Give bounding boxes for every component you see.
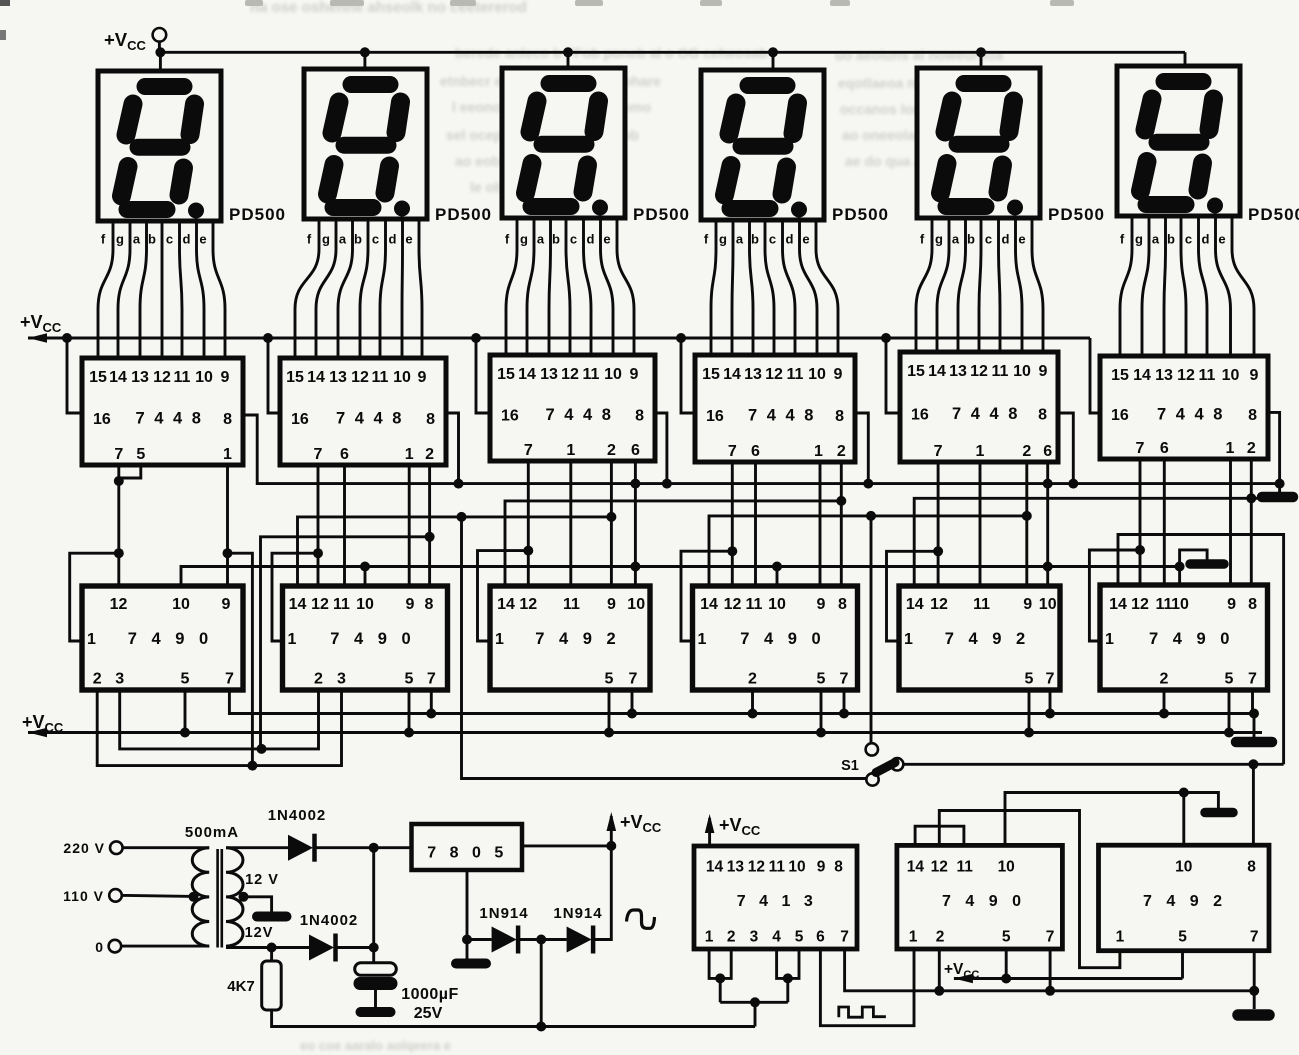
wire 7448 U2 pin8 to ground chain <box>446 413 459 484</box>
junction to U11 pin1 loop <box>933 546 943 556</box>
svg-text:14: 14 <box>497 596 515 613</box>
junction Vcc bus / U4 pin16 <box>676 333 686 343</box>
svg-text:14: 14 <box>906 596 924 613</box>
wire U11 pin7 to ground line <box>1049 690 1052 714</box>
7448 decoder U1 <box>82 358 243 465</box>
wire display DS6 segment f to 7448 U6 pin 15 <box>1120 216 1132 356</box>
junction E1 / U3 pin2 <box>606 512 616 522</box>
svg-text:1: 1 <box>288 631 297 648</box>
wire U10 pin5 to +Vcc line <box>820 690 823 733</box>
wire +Vcc to 7448 U3 pin16 <box>476 338 490 413</box>
svg-text:a: a <box>1152 232 1160 247</box>
svg-text:7 4 9 2: 7 4 9 2 <box>535 630 620 648</box>
wire U8 pin10 to chain <box>364 567 367 587</box>
junction U5 pin8 / ground chain <box>1068 479 1078 489</box>
wire to U9 pin1 (left loop) <box>478 551 529 641</box>
junction display DS3 Vcc <box>563 47 573 57</box>
wire U14 pin7 to ground line <box>1049 949 1052 991</box>
wire U2 pin7 to 7490 U8 pin12 <box>317 465 320 586</box>
counter 7492 U15 (divider) <box>1099 845 1270 951</box>
svg-text:10: 10 <box>356 596 374 613</box>
wire rectifier node to capacitor C1 <box>372 848 375 963</box>
junction filter node <box>369 943 379 953</box>
svg-text:14: 14 <box>307 369 325 386</box>
junction U12 pin2 <box>1159 709 1169 719</box>
svg-text:PD500: PD500 <box>435 205 492 224</box>
svg-text:16: 16 <box>291 411 309 428</box>
wire display DS5 segment e to 7448 U5 pin 9 <box>1032 218 1043 352</box>
svg-text:12: 12 <box>724 596 742 613</box>
svg-text:7: 7 <box>629 671 638 688</box>
svg-text:14: 14 <box>706 859 724 876</box>
svg-text:S1: S1 <box>841 758 859 774</box>
svg-text:7: 7 <box>1250 929 1259 946</box>
wire U14 pin12 to 7492 U15 pin1 <box>939 811 1120 968</box>
wire U9 pin7 to ground line <box>631 690 634 714</box>
wire U11 pin5 to +Vcc line <box>1028 690 1031 733</box>
svg-text:1N4002: 1N4002 <box>300 912 359 929</box>
wire U9 pin5 to +Vcc line <box>608 690 611 733</box>
svg-text:7: 7 <box>1248 671 1257 688</box>
svg-text:7 4 4 8: 7 4 4 8 <box>546 406 614 424</box>
wire U8 pin7 to ground line <box>430 690 433 714</box>
wire display DS2 segment f to 7448 U2 pin 15 <box>295 219 319 358</box>
svg-text:5: 5 <box>181 671 190 688</box>
wire U6 pin1 to U12 pin9 <box>1229 459 1232 585</box>
wire U13 pin6 output to 7490 U14 pin1 <box>820 949 914 1026</box>
svg-text:12: 12 <box>153 369 171 386</box>
wire U5 pin2 to U11 pin9 <box>1025 462 1028 586</box>
svg-text:7 4 4 8: 7 4 4 8 <box>952 405 1020 423</box>
svg-text:3: 3 <box>337 671 346 688</box>
svg-text:6: 6 <box>1160 440 1169 457</box>
svg-text:16: 16 <box>911 407 929 424</box>
wire U9 pin14 clock to U4 pin2 <box>505 501 841 586</box>
svg-text:10: 10 <box>1039 596 1057 613</box>
svg-text:7: 7 <box>1046 671 1055 688</box>
junction Vcc bus / U1 pin16 <box>62 333 72 343</box>
wire display DS3 segment g to 7448 U3 pin 14 <box>527 218 534 355</box>
junction rectifier output <box>369 843 379 853</box>
svg-text:7 4 4 8: 7 4 4 8 <box>336 410 404 428</box>
svg-text:5: 5 <box>605 671 614 688</box>
ground bar (counter pin10) <box>1190 559 1224 569</box>
wire display DS5 segment b to 7448 U5 pin 12 <box>979 218 981 352</box>
wire U14 pin5 to +Vcc line <box>1005 949 1008 979</box>
wire display DS6 segment c to 7448 U6 pin 11 <box>1199 216 1208 356</box>
svg-text:4K7: 4K7 <box>227 978 255 995</box>
svg-text:13: 13 <box>1155 367 1173 384</box>
svg-text:f: f <box>505 232 510 247</box>
svg-text:1: 1 <box>1226 440 1235 457</box>
junction U4 pin2 / minutes-tens clock link <box>836 496 846 506</box>
wire display DS5 segment d to 7448 U5 pin 10 <box>1016 218 1023 352</box>
svg-text:9: 9 <box>607 596 616 613</box>
svg-text:11: 11 <box>1199 367 1216 384</box>
junction input line / 50-60Hz feed <box>750 997 760 1007</box>
wire reset line C: U7 pin3 to U8 pin2 <box>120 690 319 749</box>
svg-text:c: c <box>166 232 173 247</box>
junction center tap <box>239 892 249 902</box>
svg-text:11: 11 <box>787 366 804 383</box>
wire U14 pin14 to pin11 loop <box>915 826 964 845</box>
wire to U12 pin1 (left loop) <box>1089 550 1140 641</box>
svg-text:c: c <box>372 232 379 247</box>
junction U15 pin10 <box>1179 788 1189 798</box>
7448 decoder U2 <box>280 358 446 465</box>
junction ground line / bar <box>1249 709 1259 719</box>
svg-text:1: 1 <box>814 443 823 460</box>
wire 7448 U5 pin8 to ground chain <box>1058 413 1073 484</box>
wire display DS3 segment c to 7448 U3 pin 11 <box>584 218 592 355</box>
wire display DS4 segment d to 7448 U4 pin 10 <box>800 220 818 355</box>
junction +Vcc node <box>606 841 616 851</box>
svg-text:8: 8 <box>834 859 843 876</box>
svg-text:7: 7 <box>427 671 436 688</box>
ground bar (C1) <box>361 1007 391 1017</box>
svg-text:8: 8 <box>1247 859 1256 876</box>
svg-text:2: 2 <box>1247 440 1256 457</box>
junction U3 pin6 / pin10 chain <box>630 562 640 572</box>
wire counter pin10 ground chain <box>181 567 1180 587</box>
ground bar (divider pin10) <box>1205 808 1233 818</box>
wire U1 pin5 to pin7 <box>119 465 141 478</box>
svg-text:10: 10 <box>998 859 1015 876</box>
wire +Vcc to 7448 U1 pin16 <box>67 338 82 413</box>
svg-text:2: 2 <box>93 671 102 688</box>
wire display DS5 segment c to 7448 U5 pin 11 <box>999 218 1001 352</box>
svg-text:a: a <box>339 232 347 247</box>
svg-text:7: 7 <box>840 929 849 946</box>
terminal 0V <box>109 940 122 953</box>
junction E1 / S1 wire <box>457 512 467 522</box>
svg-text:11: 11 <box>333 596 350 613</box>
svg-text:7 8 0 5: 7 8 0 5 <box>427 845 507 862</box>
svg-text:9: 9 <box>630 366 639 383</box>
IC 7413 Schmitt oscillator U13 <box>694 846 857 949</box>
junction to U10 pin1 loop <box>727 546 737 556</box>
svg-text:11: 11 <box>746 596 763 613</box>
wire U4 pin6 to U10 pin11 <box>754 462 757 586</box>
display DS5 PD500 7-segment <box>917 68 1040 218</box>
arrowhead +Vcc (U13) <box>705 814 715 833</box>
wire bus to display DS4 <box>772 52 775 70</box>
svg-text:5: 5 <box>795 929 804 946</box>
svg-text:7 4 1 3: 7 4 1 3 <box>737 893 817 910</box>
svg-text:5: 5 <box>1225 671 1234 688</box>
svg-text:5: 5 <box>405 671 414 688</box>
wire U3 pin2 to U9 pin9 <box>610 461 613 586</box>
junction 110V tap <box>189 892 199 902</box>
wire display DS6 segment a to 7448 U6 pin 13 <box>1164 216 1166 356</box>
svg-text:g: g <box>935 232 943 247</box>
+Vcc line counter row (pins 5) <box>28 731 1262 734</box>
svg-text:7: 7 <box>840 671 849 688</box>
svg-text:6: 6 <box>631 442 640 459</box>
junction U10 pin5 <box>816 728 826 738</box>
capacitor C1 1000uF 25V <box>355 963 397 976</box>
wire display DS2 segment d to 7448 U2 pin 10 <box>401 219 404 358</box>
wire +Vcc to 7448 U2 pin16 <box>268 338 280 413</box>
wire U11 pin14 clock to U6 pin2 and bar <box>914 498 1262 586</box>
svg-text:8: 8 <box>223 411 232 428</box>
wire display DS4 segment g to 7448 U4 pin 14 <box>732 220 733 355</box>
junction U6 pin8 / ground chain <box>1275 479 1285 489</box>
svg-text:b: b <box>354 232 362 247</box>
svg-text:13: 13 <box>949 363 967 380</box>
wire D1 cathode to 7805 <box>316 846 412 849</box>
svg-text:b: b <box>1167 232 1175 247</box>
svg-text:8: 8 <box>1038 407 1047 424</box>
wire D3 to D4 <box>520 938 567 941</box>
svg-text:d: d <box>587 232 595 247</box>
svg-text:9: 9 <box>817 859 826 876</box>
wire display DS5 segment g to 7448 U5 pin 14 <box>937 218 949 352</box>
svg-text:d: d <box>389 232 397 247</box>
junction display DS2 Vcc <box>360 47 370 57</box>
svg-text:12: 12 <box>1131 596 1149 613</box>
svg-text:8: 8 <box>1248 407 1257 424</box>
+Vcc bus wire for 7448 decoders <box>28 337 1090 340</box>
svg-text:14: 14 <box>700 596 718 613</box>
wire 7448 U4 pin8 to ground chain <box>855 413 868 484</box>
junction display DS4 Vcc <box>768 47 778 57</box>
wire ground line to bar <box>1253 714 1256 738</box>
svg-text:11: 11 <box>583 366 600 383</box>
svg-text:PD500: PD500 <box>1048 205 1105 224</box>
svg-text:14: 14 <box>518 366 536 383</box>
wire T1 secondary top to diode D1 <box>226 846 288 849</box>
svg-text:10: 10 <box>1013 363 1031 380</box>
terminal 110V <box>109 889 122 902</box>
svg-text:1: 1 <box>976 443 985 460</box>
svg-text:2: 2 <box>314 671 323 688</box>
svg-text:10: 10 <box>1175 859 1192 876</box>
svg-text:15: 15 <box>89 369 107 386</box>
transformer T1 core <box>216 849 219 948</box>
wire U12 pin5 to +Vcc line <box>1228 690 1231 733</box>
wire U1 pin1 to U7 pin9 <box>226 465 229 586</box>
wire terminal to display Vcc bus <box>158 42 161 53</box>
svg-text:14: 14 <box>109 369 127 386</box>
wire U4 pin1 to U10 pin9 <box>819 462 822 586</box>
wire U13 Vcc pin up <box>708 828 711 846</box>
svg-text:14: 14 <box>289 596 307 613</box>
wire display DS5 segment f to 7448 U5 pin 15 <box>916 218 932 352</box>
svg-text:g: g <box>719 232 727 247</box>
stem <box>708 818 711 828</box>
svg-text:1N914: 1N914 <box>479 905 528 922</box>
svg-text:1: 1 <box>705 929 714 946</box>
junction to U8 pin1 loop <box>313 548 323 558</box>
junction to U9 pin1 loop <box>523 546 533 556</box>
switch S1 lever <box>876 763 895 773</box>
ground bar (7805) <box>456 959 486 969</box>
junction U14 pin7 <box>1045 986 1055 996</box>
junction Vcc bus / U3 pin16 <box>471 333 481 343</box>
7448 decoder U6 <box>1100 356 1268 459</box>
wire display DS6 segment e to 7448 U6 pin 9 <box>1232 216 1254 356</box>
svg-text:7: 7 <box>728 443 737 460</box>
junction U14 pin5 <box>1001 974 1011 984</box>
wire display DS4 segment b to 7448 U4 pin 12 <box>765 220 774 355</box>
svg-text:12 V: 12 V <box>245 872 279 888</box>
svg-text:10: 10 <box>393 369 411 386</box>
svg-text:12: 12 <box>351 369 369 386</box>
svg-text:PD500: PD500 <box>832 205 889 224</box>
wire +Vcc line to U15 pin5 <box>1181 951 1184 979</box>
transformer T1 secondary winding <box>226 848 243 946</box>
junction U3 pin6 / ground chain <box>630 479 640 489</box>
junction U15 pin7 / ground line <box>1249 986 1259 996</box>
svg-text:6: 6 <box>751 443 760 460</box>
svg-text:9: 9 <box>418 369 427 386</box>
wire U10 pin7 to ground line <box>843 690 846 714</box>
svg-text:10: 10 <box>788 859 805 876</box>
wire 110V to T1 primary tap <box>122 895 194 896</box>
svg-text:7 4 9 2: 7 4 9 2 <box>1143 893 1227 910</box>
svg-text:16: 16 <box>706 408 724 425</box>
svg-text:9: 9 <box>1023 596 1032 613</box>
svg-text:10: 10 <box>604 366 622 383</box>
svg-text:6: 6 <box>1043 443 1052 460</box>
junction U11 pin5 <box>1024 728 1034 738</box>
junction U11 pin7 <box>1045 709 1055 719</box>
svg-text:1: 1 <box>495 631 504 648</box>
junction Vcc bus / U2 pin16 <box>263 333 273 343</box>
svg-text:14: 14 <box>907 859 925 876</box>
resistor R1 4K7 <box>262 961 282 1010</box>
svg-text:e: e <box>603 232 610 247</box>
wire bus to display DS1 <box>159 52 162 71</box>
svg-text:12: 12 <box>1177 367 1195 384</box>
svg-text:b: b <box>751 232 759 247</box>
svg-text:2: 2 <box>936 929 945 946</box>
svg-text:e: e <box>802 232 809 247</box>
svg-text:1: 1 <box>698 631 707 648</box>
junction U14 pin2 <box>934 986 944 996</box>
svg-text:1: 1 <box>87 631 96 648</box>
svg-text:9: 9 <box>817 596 826 613</box>
wire T1 secondary bottom to diode D2 <box>226 946 309 949</box>
svg-text:10: 10 <box>768 596 786 613</box>
junction U8 pin7 <box>426 709 436 719</box>
counter 7490 U14 (divider) <box>897 845 1063 949</box>
svg-text:7 4 4 8: 7 4 4 8 <box>748 407 816 425</box>
svg-text:14: 14 <box>723 366 741 383</box>
wire to U8 pin1 (left loop) <box>272 553 318 641</box>
wire 0V to T1 primary <box>121 945 209 948</box>
wire pins1-2 to input line <box>719 978 722 1002</box>
svg-text:g: g <box>520 232 528 247</box>
svg-text:PD500: PD500 <box>1248 205 1299 224</box>
wire U12 pin2 to ground line <box>1163 690 1166 714</box>
wire U3 pin6 to U9 pin10 <box>634 461 637 586</box>
svg-text:f: f <box>704 232 709 247</box>
counter U11 7492 <box>899 586 1060 690</box>
wire U13 pins4-5 joined <box>777 949 799 978</box>
svg-text:10: 10 <box>1222 367 1240 384</box>
svg-text:3: 3 <box>115 671 124 688</box>
diode D3 1N914 <box>492 927 517 953</box>
svg-text:5: 5 <box>817 671 826 688</box>
svg-text:10: 10 <box>808 366 826 383</box>
svg-text:8: 8 <box>426 411 435 428</box>
svg-text:12: 12 <box>519 596 537 613</box>
svg-text:9: 9 <box>1250 367 1259 384</box>
svg-text:7: 7 <box>1136 440 1145 457</box>
wire +Vcc node up <box>610 826 613 846</box>
svg-text:7 4 4 8: 7 4 4 8 <box>136 410 204 428</box>
svg-text:c: c <box>985 232 992 247</box>
svg-text:13: 13 <box>131 369 149 386</box>
svg-text:c: c <box>570 232 577 247</box>
display DS2 PD500 7-segment <box>304 69 427 219</box>
svg-text:1000µF: 1000µF <box>401 986 459 1003</box>
AC sine symbol <box>627 910 655 928</box>
svg-text:16: 16 <box>1111 407 1129 424</box>
wire counter ground line (pins 7) <box>229 690 1254 714</box>
wire 7448 U6 pin8 to ground bar <box>1268 412 1280 494</box>
arrowhead +Vcc bus 7448 row <box>28 333 47 343</box>
svg-text:1: 1 <box>909 929 918 946</box>
svg-text:15: 15 <box>907 363 925 380</box>
wire U5 pin6 to U11 pin10 <box>1046 462 1049 586</box>
wire display DS1 segment e to 7448 U1 pin 9 <box>213 221 225 358</box>
svg-text:8: 8 <box>1248 596 1257 613</box>
wire U8 pin5 to +Vcc line <box>408 690 411 733</box>
wire U3 pin1 to U9 pin11 <box>569 461 572 586</box>
svg-text:7: 7 <box>1046 929 1055 946</box>
switch S1 bottom contact <box>866 773 878 785</box>
wire U4 pin7 to 7490 U10 pin12 <box>731 462 734 586</box>
counter U7 7490 <box>82 586 243 690</box>
svg-text:g: g <box>322 232 330 247</box>
wire to 7490 U7 pin1 (left loop) <box>70 553 119 641</box>
wire tap to 50/60Hz line <box>540 940 543 1027</box>
svg-text:b: b <box>552 232 560 247</box>
svg-text:12: 12 <box>970 363 988 380</box>
svg-text:b: b <box>148 232 156 247</box>
svg-text:0: 0 <box>95 939 103 955</box>
wire input line to 50/60Hz line <box>754 1002 757 1026</box>
svg-text:11: 11 <box>174 369 191 386</box>
wire display DS3 segment a to 7448 U3 pin 13 <box>549 218 551 355</box>
wire U14 pin2 to ground line <box>938 949 941 991</box>
svg-text:220 V: 220 V <box>63 840 105 856</box>
svg-text:16: 16 <box>501 408 519 425</box>
wire display DS6 segment g to 7448 U6 pin 14 <box>1142 216 1149 356</box>
wire U6 pin7 to 7490 U12 pin12 <box>1139 459 1142 585</box>
junction U10 pin7 <box>839 709 849 719</box>
svg-text:10: 10 <box>172 596 190 613</box>
7448 decoder U3 <box>490 355 655 461</box>
svg-text:f: f <box>1120 232 1125 247</box>
wire display DS2 segment a to 7448 U2 pin 13 <box>338 219 353 358</box>
svg-text:7 4 9 0: 7 4 9 0 <box>740 630 825 648</box>
ground bar (oscillator section) <box>1238 1009 1269 1021</box>
svg-text:11: 11 <box>1156 596 1173 613</box>
svg-text:a: a <box>133 232 141 247</box>
wire U5 pin1 to U11 pin11 <box>979 462 982 586</box>
wire E2 to S1 top contact <box>870 516 873 743</box>
wire bus to display DS3 <box>567 52 570 68</box>
junction pins1-2 <box>715 973 725 983</box>
svg-text:a: a <box>537 232 545 247</box>
junction U2 pin2 / line F <box>425 532 435 542</box>
junction U9 pin7 <box>627 709 637 719</box>
svg-text:10: 10 <box>1171 596 1189 613</box>
